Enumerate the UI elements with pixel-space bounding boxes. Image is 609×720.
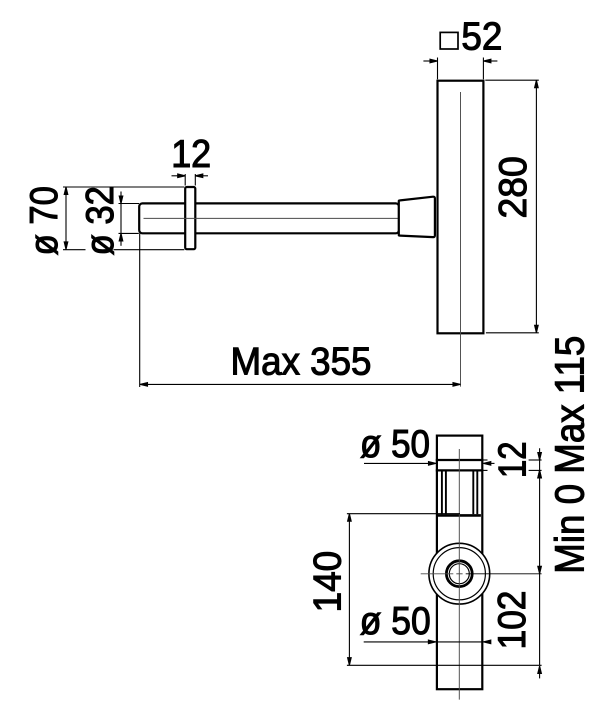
dim 140: extension lines (347, 513, 460, 515)
dim dia50 bottom: dimension line with outside arrows (364, 641, 491, 643)
svg-text:ø 50: ø 50 (360, 600, 431, 643)
dim Max355: left extension line (139, 233, 141, 387)
svg-text:ø 50: ø 50 (360, 423, 430, 466)
svg-text:ø 70: ø 70 (23, 186, 66, 255)
label square-52 (440, 32, 458, 49)
wall column (square profile) (438, 81, 484, 334)
svg-text:280: 280 (492, 156, 535, 218)
column centerline (extends below as Max355 extension) (460, 92, 462, 387)
svg-text:ø 32: ø 32 (79, 186, 122, 255)
siphon tube vertical (437, 436, 482, 690)
dim Max355: dimension line (140, 383, 461, 385)
valve body circles (429, 543, 490, 604)
svg-text:12: 12 (171, 133, 211, 176)
svg-text:12: 12 (491, 442, 534, 479)
dim dia70: extension lines (63, 186, 184, 188)
svg-text:140: 140 (307, 551, 350, 613)
dim 280: extension lines (485, 79, 539, 81)
thread section lines (441, 472, 443, 515)
lower body top edge (438, 514, 481, 517)
dim 280: dimension line (535, 80, 537, 333)
flange on pipe (185, 187, 195, 249)
dim 140: dimension line (348, 514, 350, 666)
svg-text:52: 52 (461, 15, 502, 58)
nut bottom edge B (436, 469, 484, 471)
dim 12 flange: extension lines (184, 174, 186, 186)
dim MinMax arrows (shared line) (538, 470, 542, 478)
dim dia70: dimension line (65, 187, 67, 249)
dim dia32: dimension line with outside arrows (120, 192, 122, 246)
cone connector (399, 197, 435, 237)
svg-text:Max 355: Max 355 (231, 340, 372, 383)
pipe centerline (144, 217, 401, 219)
pipe horizontal body (139, 203, 399, 233)
svg-text:Min 0 Max 115: Min 0 Max 115 (547, 336, 593, 574)
dim 52: dimension line with outside arrows (423, 60, 437, 62)
dim 102 arrows (538, 666, 542, 674)
nut feature line A (436, 459, 484, 461)
dim dia50 top: dimension line with outside arrows (364, 462, 436, 464)
horizontal centerline bottom figure (421, 573, 454, 575)
vertical centerline bottom figure (458, 449, 460, 700)
dim 12 right: extension stubs (483, 459, 487, 461)
dim 52: extension lines (437, 58, 439, 80)
dim 12 right arrows (538, 453, 542, 461)
dim 12 flange: dimension line with outside arrows (172, 175, 186, 177)
shared right dimension line (539, 448, 541, 665)
svg-text:102: 102 (491, 591, 534, 650)
dim dia32: extension lines (119, 203, 140, 205)
